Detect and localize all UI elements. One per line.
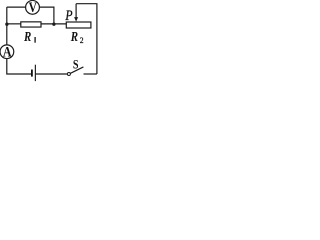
switch S pivot circle (67, 73, 70, 76)
wire switch fixed contact to bottom-right corner (84, 73, 97, 75)
battery BT1 positive plate (long thin) (35, 65, 36, 81)
wire wiper top horizontal and right vertical side (76, 4, 97, 74)
battery BT1 negative plate (short thick) (31, 70, 33, 77)
switch S blade (70, 67, 83, 74)
rheostat wiper arrow stem (75, 4, 77, 18)
wire voltmeter right then down to node B (40, 7, 54, 24)
resistor R1 box (21, 22, 41, 27)
svg-text:A: A (3, 43, 12, 60)
rheostat R2 box (66, 22, 91, 28)
wire node A to R1 (7, 23, 21, 25)
wire ammeter bottom to battery (7, 59, 31, 74)
svg-text:2: 2 (80, 36, 84, 45)
wire battery to switch (36, 73, 68, 75)
ammeter A1 circle (0, 45, 14, 59)
svg-text:V: V (29, 0, 38, 15)
wire top-left horizontal to voltmeter (7, 6, 26, 8)
wire R1 to R2 through node B (41, 23, 66, 25)
node A junction dot (5, 23, 8, 26)
rheostat wiper arrowhead (74, 17, 78, 22)
node B junction dot (52, 23, 55, 26)
wire left vertical from top corner to ammeter (6, 7, 8, 45)
resistor R1 subscript 1 (34, 37, 35, 43)
svg-text:R: R (70, 29, 78, 45)
svg-text:S: S (73, 57, 79, 71)
svg-text:R: R (23, 29, 31, 45)
svg-text:P: P (65, 6, 73, 23)
voltmeter U1 circle (26, 0, 40, 14)
